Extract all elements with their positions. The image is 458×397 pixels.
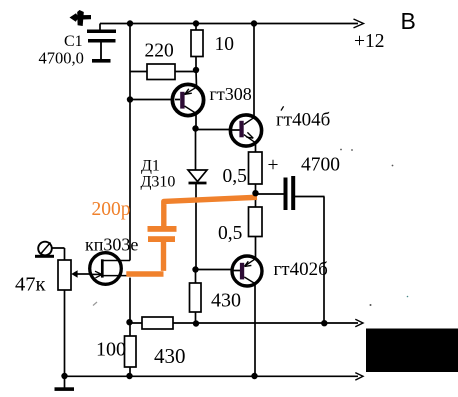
svg-text:100: 100 bbox=[96, 339, 126, 361]
svg-text:Д310: Д310 bbox=[141, 174, 176, 191]
svg-text:4700: 4700 bbox=[301, 155, 340, 176]
svg-text:C1: C1 bbox=[64, 33, 83, 50]
svg-text:кп303е: кп303е bbox=[85, 235, 138, 255]
svg-text:гт308: гт308 bbox=[210, 84, 252, 104]
svg-text:220: 220 bbox=[145, 41, 174, 62]
svg-text:0,5: 0,5 bbox=[223, 166, 247, 187]
svg-text:47к: 47к bbox=[15, 274, 46, 296]
svg-text:гт404б: гт404б bbox=[276, 110, 330, 131]
svg-text:430: 430 bbox=[211, 290, 241, 312]
svg-text:+12: +12 bbox=[354, 31, 385, 52]
svg-text:0,5: 0,5 bbox=[218, 223, 242, 244]
svg-text:Д1: Д1 bbox=[141, 158, 160, 175]
svg-text:+: + bbox=[268, 155, 279, 176]
svg-text:В: В bbox=[401, 8, 416, 34]
svg-text:430: 430 bbox=[154, 344, 186, 368]
svg-text:10: 10 bbox=[215, 34, 235, 55]
svg-text:4700,0: 4700,0 bbox=[39, 49, 84, 68]
svg-text:200р: 200р bbox=[92, 199, 131, 220]
svg-text:гт402б: гт402б bbox=[274, 259, 328, 280]
